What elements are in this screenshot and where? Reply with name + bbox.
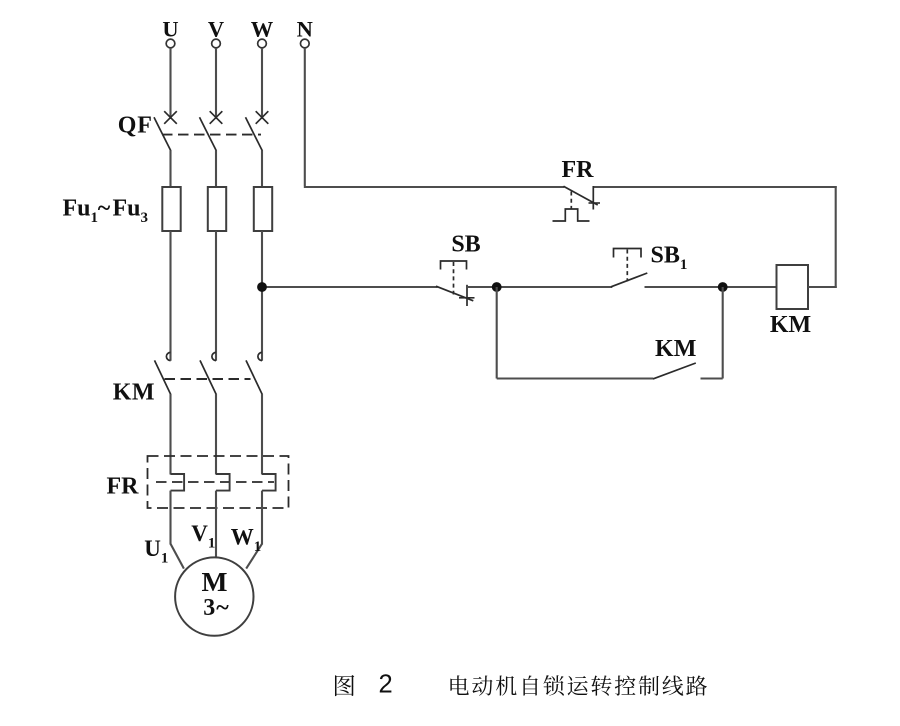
svg-text:QF: QF bbox=[118, 113, 153, 139]
svg-text:V: V bbox=[208, 16, 224, 41]
svg-text:KM: KM bbox=[770, 312, 811, 338]
svg-text:U: U bbox=[162, 16, 178, 41]
svg-text:KM: KM bbox=[655, 336, 696, 362]
svg-text:W: W bbox=[251, 16, 274, 41]
svg-text:~: ~ bbox=[98, 196, 111, 222]
svg-text:FR: FR bbox=[107, 474, 140, 500]
svg-text:M: M bbox=[202, 566, 228, 597]
svg-text:N: N bbox=[297, 16, 313, 41]
svg-text:FR: FR bbox=[562, 157, 595, 183]
svg-text:SB: SB bbox=[451, 231, 480, 257]
svg-text:2: 2 bbox=[379, 671, 393, 699]
svg-text:KM: KM bbox=[113, 380, 155, 406]
svg-text:3~: 3~ bbox=[203, 595, 229, 621]
